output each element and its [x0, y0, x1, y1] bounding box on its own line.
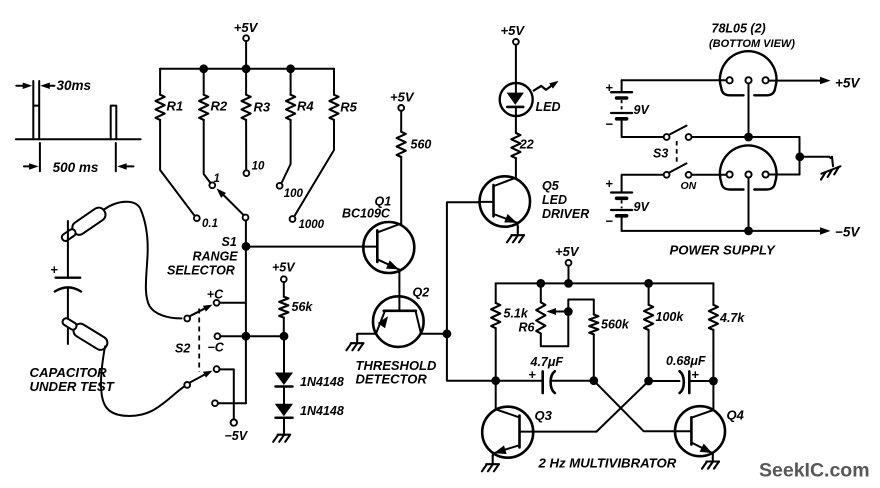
svg-text:0.1: 0.1 [202, 218, 218, 230]
wire R4 to contact 100 [281, 120, 290, 184]
svg-text:−: − [606, 117, 614, 132]
wire junction to diode [283, 336, 285, 372]
svg-text:LED: LED [542, 193, 567, 207]
svg-text:S2: S2 [175, 342, 190, 356]
resistor R5 [333, 69, 335, 95]
ground (Q4) [702, 453, 719, 469]
svg-text:R3: R3 [254, 100, 271, 115]
capacitor under test lead bottom [67, 289, 69, 345]
transistor Q3 [482, 407, 533, 458]
resistor 560k [589, 315, 598, 335]
regulator U2 pin 3 [763, 171, 769, 177]
wire top bus R1-R5 [160, 68, 334, 70]
junction dot R6 wiper [564, 307, 573, 316]
svg-text:+5V: +5V [501, 23, 526, 38]
terminal +5V (range selector) [243, 35, 249, 41]
contact +C [214, 300, 220, 306]
wire multivibrator top bus [496, 282, 714, 284]
wire R5 to contact 1000 [294, 120, 334, 217]
svg-text:CAPACITOR: CAPACITOR [30, 365, 108, 380]
svg-text:+5V: +5V [390, 90, 415, 105]
svg-text:−5V: −5V [225, 429, 249, 443]
wire cross to Q3 base [533, 381, 648, 432]
wire cross to Q4 base [594, 381, 675, 432]
junction dot 56k/-C [280, 332, 289, 341]
wire S3 lower to U2 pin 1 [692, 174, 727, 176]
contact 10 [244, 170, 250, 176]
junction dot 560k/C1 [589, 376, 598, 385]
wire Q5 emitter to ground [516, 223, 519, 228]
wire U1 right pin to +5V arrow [769, 80, 820, 82]
regulator U1 pin 3 [763, 77, 769, 83]
capacitor C1 4.7uF [541, 371, 544, 393]
svg-text:9V: 9V [634, 103, 651, 117]
terminal +5V (Q1) [398, 105, 404, 111]
wire 22 to Q5 collector [515, 158, 517, 178]
wire wiper to 560k [568, 300, 594, 315]
junction dot 5.1k/C1 [491, 376, 500, 385]
probe plug top [59, 205, 108, 245]
R6 wiper [547, 308, 557, 315]
contact S2 lower throw [214, 366, 220, 372]
wire node down to multivibrator [447, 334, 496, 381]
svg-text:22: 22 [519, 138, 534, 152]
junction dot S1 output [242, 242, 251, 251]
wire R3 to contact 10 [245, 120, 247, 171]
resistor R4 [290, 69, 292, 95]
contact 100 [277, 183, 283, 189]
transistor Q2 [373, 296, 424, 347]
wire S2 throw to -5V [220, 369, 234, 419]
junction dot 4.7k/C2 [709, 377, 718, 386]
wire Q3 collector [495, 381, 497, 410]
junction dot 100k/C2 [644, 377, 653, 386]
wire Q2 emitter to ground [357, 333, 376, 336]
svg-text:1: 1 [214, 173, 220, 185]
svg-text:10: 10 [252, 160, 265, 172]
wire +C to bus [220, 302, 246, 304]
ground (Q2) [346, 335, 363, 351]
svg-text:500 ms: 500 ms [53, 160, 99, 175]
battery B2 9V [622, 175, 664, 192]
svg-text:+: + [606, 176, 614, 191]
wire to earth [800, 157, 831, 158]
terminal -5V [231, 419, 237, 425]
wire U2 pin 3 to ground node [769, 174, 800, 176]
svg-text:UNDER TEST: UNDER TEST [30, 379, 115, 394]
svg-text:4.7k: 4.7k [719, 311, 745, 325]
resistor R3 [245, 69, 247, 95]
svg-text:+: + [529, 367, 537, 382]
wire -C to 56k junction [220, 335, 284, 337]
resistor 56k [279, 297, 288, 318]
waveform baseline [16, 138, 141, 140]
30ms dimension arrows [16, 85, 27, 87]
terminal +5V (56k) [281, 276, 287, 282]
wire S1 pole down [245, 220, 247, 246]
waveform pulse 2 [111, 106, 117, 140]
switch S3 upper [664, 134, 670, 140]
wire U1 left pin to battery [622, 79, 727, 81]
svg-text:+: + [692, 367, 700, 382]
wire +5V to bus [245, 41, 247, 69]
contact -C [215, 333, 221, 339]
ground (Q3) [482, 456, 499, 472]
switch S2 upper arm [190, 307, 209, 317]
wire R6 bottom loop [541, 312, 569, 347]
ground (diodes) [273, 426, 290, 442]
svg-text:BC109C: BC109C [342, 207, 391, 221]
wire Q3 emitter to ground [492, 453, 495, 456]
regulator U1 pin 2 [745, 77, 751, 83]
junction dot bus-R4 [286, 64, 295, 73]
resistor 4.7k [712, 283, 714, 304]
wire R1 to contact 0.1 [160, 120, 195, 217]
wire C1 to 560k node [552, 380, 594, 382]
svg-text:560k: 560k [601, 318, 630, 332]
svg-text:78L05 (2): 78L05 (2) [712, 22, 766, 36]
battery B1 9V [621, 80, 623, 91]
svg-text:Q3: Q3 [535, 408, 553, 423]
svg-text:R1: R1 [167, 99, 184, 114]
svg-text:THRESHOLD: THRESHOLD [356, 358, 438, 373]
svg-text:30ms: 30ms [57, 78, 92, 93]
wire 100k node to C2 [649, 380, 680, 382]
svg-text:−C: −C [208, 341, 225, 355]
LED D3 [500, 83, 533, 116]
diode D2 1N4148 [275, 404, 293, 417]
svg-text:56k: 56k [292, 300, 314, 314]
junction dot bus-100k [644, 279, 653, 288]
contact S2 lower NC [212, 400, 218, 406]
wire diode2 to ground [283, 418, 285, 426]
waveform pulse 1 [33, 81, 39, 139]
wire +5V drop [568, 266, 570, 284]
wire R2 to contact 1 [204, 120, 211, 183]
svg-text:2 Hz MULTIVIBRATOR: 2 Hz MULTIVIBRATOR [538, 456, 677, 471]
diode D1 1N4148 [275, 373, 293, 386]
contact 1 [209, 182, 215, 188]
resistor R2 [203, 69, 205, 95]
svg-text:1N4148: 1N4148 [300, 404, 344, 418]
svg-text:ON: ON [681, 180, 697, 192]
capacitor under test top plate [56, 277, 80, 279]
svg-text:+: + [51, 262, 59, 277]
svg-text:Q5: Q5 [542, 179, 560, 193]
wire ground node down [799, 137, 801, 175]
junction dot -5V rail [744, 227, 753, 236]
capacitor under test lead top [67, 221, 69, 277]
wire S1 to Q1 base [246, 246, 363, 248]
junction dot earth [795, 152, 804, 161]
wire node to C1 [496, 380, 543, 382]
wire LED to 22 [515, 107, 517, 133]
transistor Q5 [480, 176, 530, 226]
resistor R1 [159, 69, 161, 95]
contact 1000 [290, 216, 296, 222]
svg-text:−: − [606, 214, 614, 229]
switch S2 lower pole [184, 382, 190, 388]
junction dot Q2 collector [443, 329, 452, 338]
junction dot bus-R2 [199, 64, 208, 73]
switch S2 lower arm [190, 373, 209, 383]
svg-text:R5: R5 [340, 99, 357, 114]
svg-text:R4: R4 [297, 99, 314, 114]
svg-text:+5V: +5V [555, 244, 580, 259]
wire probe bottom to S2 [101, 347, 184, 416]
svg-text:5.1k: 5.1k [504, 307, 529, 321]
svg-text:100k: 100k [656, 310, 685, 324]
svg-text:0.68μF: 0.68μF [666, 354, 706, 368]
terminal +5V (LED) [513, 39, 519, 45]
transistor Q4 [675, 406, 725, 456]
svg-text:DETECTOR: DETECTOR [356, 372, 428, 387]
svg-text:R2: R2 [211, 99, 228, 114]
wire Q4 emitter to ground [712, 452, 714, 455]
wire 5.1k down [495, 328, 497, 381]
svg-text:POWER SUPPLY: POWER SUPPLY [670, 243, 776, 258]
regulator U1 pin 1 [727, 77, 733, 83]
wire 560k down [593, 335, 595, 381]
junction dot U1 ground [744, 133, 753, 142]
contact 0.1 [194, 215, 200, 221]
500ms dimension arrows [24, 165, 32, 167]
wire diode1 to diode2 [283, 387, 285, 404]
wire S3 upper to ground node [692, 136, 800, 138]
wire +5V to LED [515, 45, 517, 93]
svg-text:560: 560 [411, 138, 432, 152]
wire vertical S1/+C/-C bus [245, 246, 247, 403]
wire 56k to junction [283, 318, 285, 337]
svg-text:+5V: +5V [234, 20, 259, 35]
wire U2 center pin down [748, 178, 750, 231]
transistor Q1 [363, 222, 414, 273]
junction dot bus-5V [564, 279, 573, 288]
wire NC contact to bus [218, 402, 246, 404]
resistor 22 [511, 133, 520, 158]
resistor 5.1k [495, 283, 497, 303]
regulator U2 pin 2 [745, 171, 751, 177]
wire U1 center pin down [748, 83, 750, 137]
switch S3 link dashed [676, 141, 678, 164]
svg-text:−5V: −5V [835, 225, 860, 240]
svg-text:100: 100 [284, 188, 304, 200]
svg-text:S1: S1 [222, 235, 237, 249]
terminal +5V (multivibrator) [566, 260, 572, 266]
wire -5V rail [622, 230, 820, 232]
wire 4.7k node to Q4 collector [712, 381, 714, 410]
svg-text:Q4: Q4 [727, 408, 745, 423]
junction dot bus-R3 [242, 64, 251, 73]
regulator U2 outline (bottom 78L05) [720, 145, 777, 189]
resistor 100k [648, 283, 650, 304]
svg-text:SELECTOR: SELECTOR [167, 263, 235, 277]
switch S3 lower [664, 172, 670, 178]
switch S2 upper pole [184, 316, 190, 322]
500ms extension lines [39, 143, 41, 171]
switch S2 link dashed [198, 309, 200, 373]
svg-text:LED: LED [536, 100, 561, 114]
wire Q1 emitter to Q2 base [398, 270, 400, 311]
svg-text:1000: 1000 [299, 219, 325, 231]
ground (Q5) [507, 227, 524, 243]
wire C2 to 4.7k node [689, 380, 713, 382]
svg-text:S3: S3 [653, 147, 668, 161]
svg-text:SeekIC.com: SeekIC.com [759, 460, 870, 482]
svg-text:R6: R6 [519, 321, 536, 335]
svg-text:9V: 9V [634, 200, 651, 214]
wire 100k down [648, 330, 650, 381]
probe plug bottom [60, 314, 110, 352]
switch S1 wiper arm [222, 194, 244, 216]
svg-text:+5V: +5V [272, 261, 296, 275]
switch S1 pole [243, 215, 249, 221]
resistor 560 [397, 132, 406, 157]
svg-text:DRIVER: DRIVER [542, 207, 589, 221]
svg-text:(BOTTOM VIEW): (BOTTOM VIEW) [709, 38, 795, 50]
wire +5V to 56k [283, 282, 285, 297]
regulator U2 pin 1 [727, 171, 733, 177]
wire 4.7k down [712, 330, 714, 381]
LED emission arrow [534, 84, 554, 90]
junction dot -C bus [242, 332, 251, 341]
wire Q2 collector to node [421, 333, 447, 335]
earth ground symbol [832, 157, 833, 166]
svg-text:RANGE: RANGE [193, 250, 239, 264]
wire 560 to Q1 collector [400, 157, 402, 224]
junction dot bus-R6 [536, 279, 545, 288]
svg-text:1N4148: 1N4148 [300, 375, 344, 389]
capacitor under test curved plate [55, 287, 81, 291]
svg-text:Q2: Q2 [413, 286, 430, 300]
wire node to Q5 base [447, 202, 480, 333]
wire probe top to S2 [104, 202, 182, 319]
regulator U1 outline (top 78L05) [720, 51, 777, 95]
capacitor C2 0.68uF [680, 371, 684, 393]
wire +5V to 560 [400, 111, 402, 132]
potentiometer R6 [540, 283, 542, 302]
svg-text:+5V: +5V [835, 76, 860, 91]
